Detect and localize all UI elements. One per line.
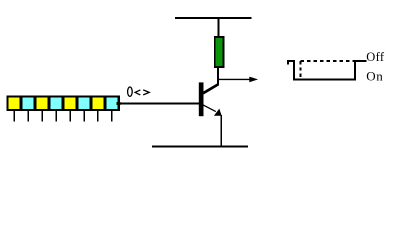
LED segment 5 (yellow) [65,98,76,109]
pin 5 [69,111,71,122]
LED segment 8 (cyan) [106,98,117,109]
waveform dashed edge [300,61,302,79]
svg-text:Off: Off [366,50,385,64]
pin 2 [27,111,29,122]
pin 3 [41,111,43,122]
waveform dashed off-level [300,60,354,62]
node label 0<> [128,87,150,96]
wire resistor to supply rail [218,18,220,39]
LED segment 2 (cyan) [23,98,34,109]
wire collector to resistor [217,66,219,86]
LED bar display DS1 body [7,95,121,110]
ground rail (bottom) [152,145,248,147]
resistor R1 [215,37,224,67]
LED segment 6 (cyan) [79,98,90,109]
supply rail (top) [175,17,252,19]
waveform trace [288,61,367,80]
pin 7 [97,111,99,122]
pin 1 [13,111,15,122]
transistor Q1 [199,82,222,116]
output arrow at collector [218,77,258,83]
svg-text:On: On [366,69,383,84]
LED segment 7 (yellow) [92,98,103,109]
LED segment 1 (yellow) [9,98,20,109]
pin 6 [83,111,85,122]
wire base (display output to transistor base) [116,102,120,105]
LED segment 3 (yellow) [37,98,48,109]
wire emitter to ground rail [220,115,222,147]
LED segment 4 (cyan) [51,98,62,109]
pin 4 [55,111,57,122]
pin 8 [111,111,113,122]
